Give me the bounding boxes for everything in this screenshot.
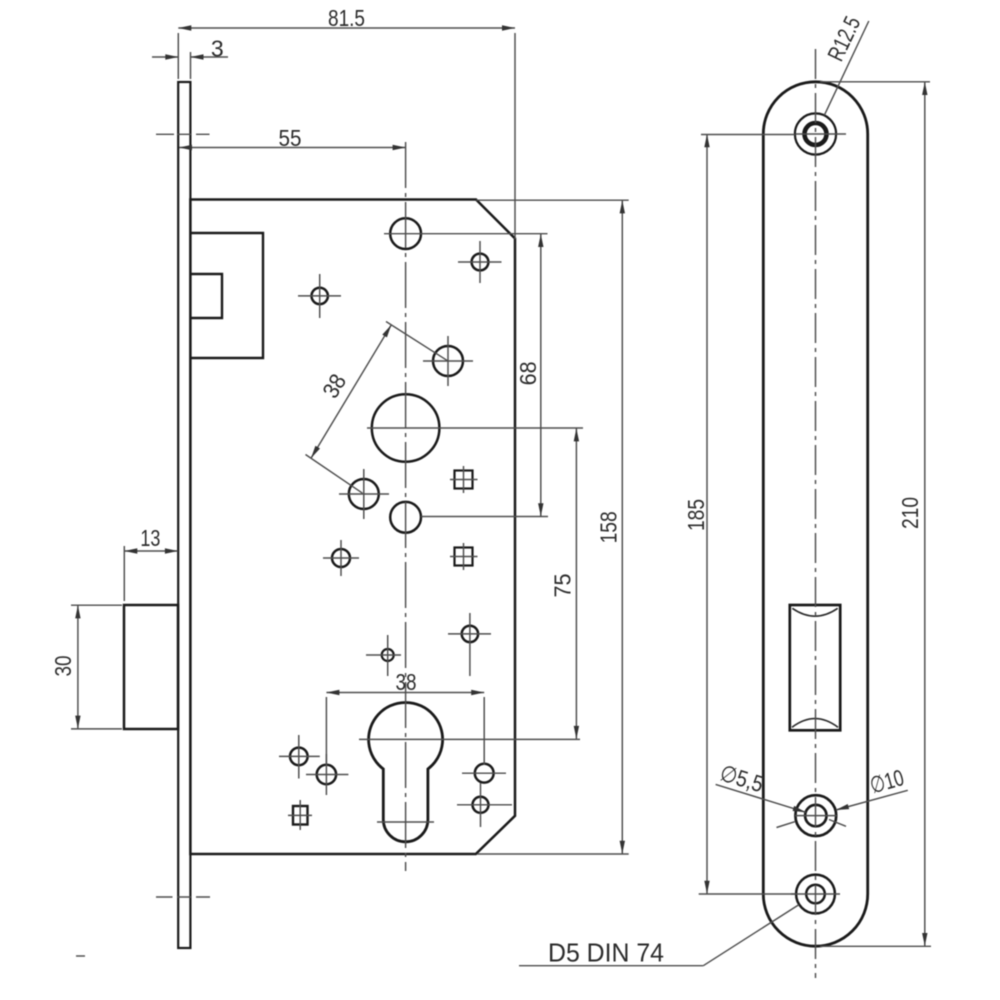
svg-text:13: 13: [140, 525, 160, 551]
cylinder chord line: [377, 821, 434, 823]
svg-text:38: 38: [396, 669, 417, 695]
svg-text:∅10: ∅10: [867, 764, 907, 798]
crosshair mid screw hole: [795, 815, 837, 817]
dim 38 diagonal line: [311, 325, 391, 458]
crosshair hole 38-upper: [423, 336, 473, 386]
crosshair hole bottom-right b: [457, 783, 512, 827]
crosshair screw hole top right: [458, 241, 502, 283]
dim 210 line: [924, 82, 926, 946]
centerline euro cylinder: [359, 738, 580, 740]
crosshair square upper: [450, 466, 478, 493]
spindle hole: [390, 502, 421, 533]
leader dia 5.5 continuation: [829, 820, 846, 827]
svg-text:55: 55: [279, 125, 302, 151]
crosshair bottom screw hole: [791, 893, 840, 895]
dim 185 line: [706, 134, 708, 893]
crosshair top screw hole: [796, 133, 847, 135]
square hole lower: [455, 548, 473, 566]
dim 68 line: [540, 234, 542, 516]
svg-text:D5 DIN 74: D5 DIN 74: [548, 938, 664, 968]
dim 3 tails: [152, 56, 178, 58]
lock body outline: [190, 200, 515, 855]
strip centre mark bottom: [156, 896, 210, 898]
faceplate outline (stadium): [763, 82, 867, 946]
leader R12.5: [824, 21, 869, 115]
faceplate vertical centerline: [815, 49, 817, 978]
dim 185 ext: [699, 135, 796, 895]
dim 30 line: [77, 605, 79, 728]
crosshair hole bottom-left b: [306, 754, 348, 795]
svg-text:81.5: 81.5: [328, 5, 365, 31]
thin lines: centerlines, crosshairs: [76, 134, 583, 956]
crosshair hole right mid: [448, 613, 491, 676]
dim 55 line: [179, 147, 406, 149]
crosshair small hole mid-left: [323, 540, 359, 576]
small hole mid-left: [332, 549, 350, 567]
hole top handle circle: [390, 218, 421, 249]
mid screw hole outer: [795, 795, 836, 836]
mid screw hole inner: [805, 805, 826, 826]
latch bolt head: [190, 274, 222, 318]
follower big hole: [372, 394, 440, 462]
bottom screw hole inner: [806, 885, 825, 904]
hole 38-lower: [349, 479, 379, 509]
tiny hole: [382, 649, 394, 661]
crosshair screw hole upper left: [298, 274, 341, 318]
dim 30 ext: [71, 605, 122, 729]
screw hole top right: [472, 254, 489, 271]
dim 81.5 line: [178, 27, 515, 29]
leader dia 10: [836, 790, 908, 810]
svg-text:75: 75: [550, 574, 576, 598]
svg-text:R12.5: R12.5: [822, 12, 865, 65]
hole bottom-left a: [290, 748, 308, 766]
dim 158 ext bottom: [477, 853, 629, 855]
dim 38 horizontal line: [326, 692, 484, 694]
centerline follower: [367, 427, 583, 429]
dim 158 ext top: [476, 199, 629, 201]
svg-text:38: 38: [317, 369, 351, 402]
dim 13 line: [124, 550, 178, 552]
dimensions left view: [71, 28, 629, 854]
screw hole upper left: [312, 288, 328, 304]
dim 3 ext: [190, 52, 192, 79]
svg-text:158: 158: [596, 511, 622, 543]
crosshair tiny hole: [366, 635, 401, 676]
faceplate strip (side view): [178, 82, 190, 948]
leader dia 5.5: [716, 784, 806, 812]
svg-text:210: 210: [897, 497, 923, 529]
crosshair square lower: [450, 543, 478, 570]
dim 81.5 ext right: [514, 33, 516, 239]
hole 38-upper: [433, 346, 463, 376]
main vertical centerline: [405, 142, 407, 871]
dim 210 ext: [820, 82, 931, 947]
deadbolt: [124, 605, 178, 729]
dim 158 line: [621, 200, 623, 853]
svg-text:30: 30: [50, 656, 76, 677]
stray dash bottom left: [76, 955, 85, 957]
top screw hole outer: [795, 113, 836, 154]
hole bottom-left b: [317, 765, 336, 784]
dim 38 horizontal ext: [326, 697, 484, 766]
latch bolt outer box: [190, 233, 263, 358]
latch window bottom arc: [792, 719, 838, 728]
hole bottom-right b: [473, 797, 489, 813]
svg-text:∅5,5: ∅5,5: [717, 759, 767, 797]
crosshair hole bottom-left a: [279, 735, 320, 779]
small rect hole bottom-left: [293, 806, 308, 825]
svg-text:68: 68: [515, 361, 541, 385]
crosshair small rect hole: [288, 800, 312, 830]
dim 75 line: [575, 428, 577, 739]
leader D5 DIN 74: [703, 905, 799, 966]
strip centre mark top: [156, 133, 210, 135]
dim 13 ext: [123, 546, 125, 601]
latch window: [790, 605, 840, 730]
dim 81.5 ext left: [177, 33, 179, 79]
hole right mid: [462, 626, 478, 642]
bottom screw hole outer: [796, 875, 835, 914]
svg-text:3: 3: [211, 36, 224, 62]
latch window top arc: [792, 608, 837, 616]
square hole upper: [455, 471, 473, 489]
hole bottom-right a: [475, 764, 494, 783]
top screw hole inner: [805, 123, 827, 145]
crosshair hole bottom-right a: [462, 772, 506, 774]
crosshair hole 38-lower: [339, 469, 389, 519]
leader dia 10 continuation: [777, 822, 795, 828]
underline D5 DIN 74: [519, 965, 703, 967]
euro profile cylinder hole: [369, 702, 443, 841]
centerline top circle: [384, 233, 548, 235]
dim 38 diagonal ext: [306, 322, 448, 494]
centerline spindle hole: [421, 516, 548, 518]
svg-text:185: 185: [683, 499, 709, 531]
